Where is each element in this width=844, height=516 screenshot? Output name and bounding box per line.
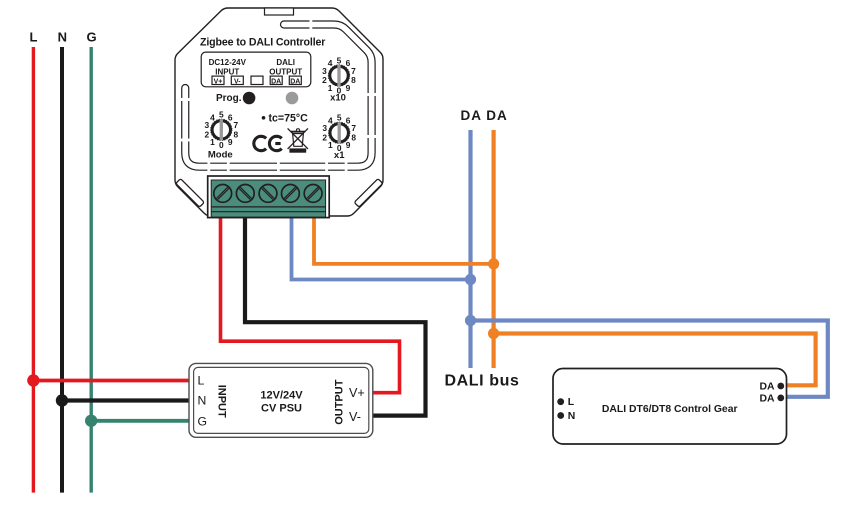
svg-text:INPUT: INPUT (215, 67, 239, 76)
svg-text:1: 1 (210, 137, 215, 147)
svg-text:Mode: Mode (208, 149, 233, 160)
svg-text:G: G (198, 414, 207, 428)
controller mounting ear right (354, 179, 383, 208)
PSU pin L (198, 374, 205, 388)
label DC12-24V INPUT (209, 58, 247, 76)
label x1 (334, 150, 345, 161)
svg-text:DA: DA (759, 393, 775, 404)
terminal screw 4 (282, 185, 300, 203)
svg-text:8: 8 (351, 75, 356, 85)
svg-text:V-: V- (234, 78, 241, 85)
svg-text:9: 9 (228, 137, 233, 147)
svg-text:8: 8 (233, 130, 238, 140)
controller groove channel (178, 16, 379, 175)
label Mode (208, 149, 233, 160)
wire blue bus to control gear DA (471, 321, 828, 397)
svg-text:DA: DA (271, 78, 281, 85)
svg-text:INPUT: INPUT (215, 385, 227, 418)
PSU pin G (198, 414, 207, 428)
svg-text:12V/24V: 12V/24V (260, 390, 303, 402)
wire G (green mains ground vertical) (89, 47, 92, 493)
label x10 (330, 93, 346, 104)
svg-text:3: 3 (204, 120, 209, 130)
svg-text:Prog.: Prog. (216, 93, 242, 104)
label tc=75C (262, 112, 308, 124)
PSU label 12V/24V CV PSU (260, 390, 303, 415)
node DA DA labels (461, 108, 508, 123)
svg-text:2: 2 (322, 133, 327, 143)
svg-text:OUTPUT: OUTPUT (334, 379, 346, 425)
prog button (black) (243, 92, 256, 105)
svg-text:1: 1 (328, 140, 333, 150)
PSU box outer (189, 363, 373, 437)
wire N to PSU input (62, 398, 190, 402)
rotary switch Mode (204, 110, 238, 150)
junction on N (56, 394, 68, 406)
junction orange lower (488, 328, 499, 339)
wire DA blue bus vertical (468, 130, 472, 368)
PSU pin V- (349, 410, 361, 424)
PSU label INPUT (rotated) (215, 385, 227, 418)
gear title (602, 404, 738, 415)
controller terminal label box (201, 52, 311, 87)
svg-text:4: 4 (328, 116, 333, 126)
svg-text:3: 3 (322, 123, 327, 133)
svg-text:N: N (198, 394, 207, 408)
svg-text:N: N (58, 30, 67, 45)
WEEE symbol (crossed-out bin) (288, 128, 308, 152)
rotary switch x10 (322, 55, 356, 95)
junction blue lower (465, 315, 476, 326)
svg-text:5: 5 (337, 113, 342, 123)
PSU pin N (198, 394, 207, 408)
rotary switch x1 (322, 113, 356, 153)
svg-text:5: 5 (219, 110, 224, 120)
svg-text:L: L (30, 30, 38, 45)
node G label (86, 30, 96, 45)
svg-text:V+: V+ (214, 78, 223, 85)
wire DA blue: controller terminal4 to bus (292, 216, 471, 280)
svg-text:tc=75°C: tc=75°C (269, 112, 309, 124)
label DALI OUTPUT (269, 58, 302, 76)
node N label (58, 30, 67, 45)
svg-text:x10: x10 (330, 93, 346, 104)
junction on G (85, 415, 97, 427)
wire V- black: controller terminal2 to PSU V- (245, 216, 426, 416)
junction blue upper (465, 274, 476, 285)
controller U1 octagonal case outline (175, 8, 383, 216)
svg-text:G: G (86, 30, 96, 45)
svg-text:9: 9 (346, 83, 351, 93)
junction on L (27, 374, 39, 386)
DALI control gear U2 box (553, 369, 787, 445)
wire N (black mains neutral vertical) (60, 47, 64, 493)
svg-text:6: 6 (346, 58, 351, 68)
PSU pin V+ (349, 386, 365, 400)
controller top tab notch (265, 8, 294, 15)
wire L to PSU input (33, 379, 189, 383)
LED indicator (gray) (286, 92, 299, 105)
svg-text:9: 9 (346, 140, 351, 150)
junction orange upper (488, 258, 499, 269)
gear pin L (557, 397, 575, 408)
terminal screw 5 (304, 185, 322, 203)
svg-text:DALI DT6/DT8 Control Gear: DALI DT6/DT8 Control Gear (602, 404, 738, 415)
svg-text:DC12-24V: DC12-24V (209, 58, 247, 67)
svg-text:V+: V+ (349, 386, 365, 400)
wire DA orange: controller terminal5 to bus (314, 216, 494, 264)
terminal screw 3 (259, 185, 277, 203)
terminal screw 1 (214, 185, 232, 203)
svg-text:8: 8 (351, 133, 356, 143)
svg-text:4: 4 (328, 58, 333, 68)
controller mounting ear left (176, 179, 205, 208)
PSU label OUTPUT (rotated) (334, 379, 346, 425)
svg-text:2: 2 (322, 75, 327, 85)
gear pin DA lower (759, 393, 784, 404)
wire G to PSU input (91, 419, 189, 423)
pin box DA 5 (289, 76, 301, 85)
svg-text:DA: DA (759, 382, 775, 393)
PSU box inner (194, 367, 369, 433)
svg-text:6: 6 (346, 116, 351, 126)
svg-text:DALI: DALI (276, 58, 295, 67)
terminal block outline (208, 176, 330, 218)
svg-text:V-: V- (349, 410, 361, 424)
controller title (200, 37, 325, 49)
wire V+ red: controller terminal1 to PSU V+ (221, 216, 400, 393)
svg-text:L: L (198, 374, 205, 388)
svg-text:6: 6 (228, 113, 233, 123)
svg-text:DA DA: DA DA (461, 108, 508, 123)
pin box V- 2 (231, 76, 243, 85)
svg-text:4: 4 (210, 113, 215, 123)
wire DA orange bus vertical (492, 130, 496, 368)
svg-text:3: 3 (322, 66, 327, 76)
svg-text:2: 2 (204, 130, 209, 140)
svg-text:DA: DA (290, 78, 300, 85)
gear pin DA upper (759, 382, 784, 393)
node DALI bus label (445, 373, 520, 390)
wire orange bus to control gear DA (494, 334, 816, 386)
gear pin N (557, 411, 575, 422)
terminal screw 2 (236, 185, 254, 203)
svg-text:x1: x1 (334, 150, 345, 161)
CE mark (254, 136, 282, 150)
svg-text:Zigbee to DALI Controller: Zigbee to DALI Controller (200, 37, 325, 49)
pin box V+ 1 (212, 76, 224, 85)
svg-text:N: N (568, 411, 576, 422)
svg-text:DALI bus: DALI bus (445, 373, 520, 390)
wire L (red mains live vertical) (32, 47, 35, 493)
label Prog. (216, 93, 242, 104)
svg-text:1: 1 (328, 83, 333, 93)
svg-text:OUTPUT: OUTPUT (269, 67, 302, 76)
svg-text:CV PSU: CV PSU (261, 403, 302, 415)
terminal block green body (211, 180, 325, 217)
svg-text:5: 5 (337, 55, 342, 65)
pin box DA 4 (270, 76, 282, 85)
pin box blank 3 (251, 76, 263, 84)
node L label (30, 30, 38, 45)
svg-text:L: L (568, 397, 575, 408)
